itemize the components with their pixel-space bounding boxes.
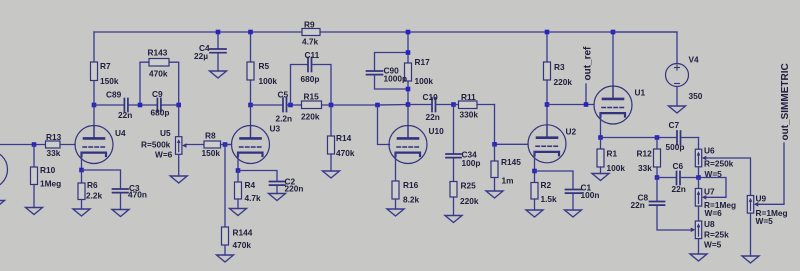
capacitor C9 xyxy=(151,89,170,118)
ground below R16 xyxy=(387,209,404,216)
svg-text:100k: 100k xyxy=(607,163,626,173)
potentiometer U7 xyxy=(695,178,736,222)
ground clipped at left edge xyxy=(0,201,5,208)
resistor R4 xyxy=(235,171,262,209)
svg-text:2.2k: 2.2k xyxy=(86,191,103,201)
capacitor C4 xyxy=(194,32,226,71)
capacitor C6 xyxy=(657,161,699,194)
svg-text:W=5: W=5 xyxy=(704,240,722,250)
junction R10 top xyxy=(32,142,37,147)
svg-text:33k: 33k xyxy=(47,148,61,158)
resistor R15 xyxy=(301,92,322,122)
svg-text:C89: C89 xyxy=(106,90,122,100)
wire U7 wiper loop xyxy=(701,178,726,198)
svg-text:V4: V4 xyxy=(689,55,700,65)
svg-text:U7: U7 xyxy=(704,187,715,197)
svg-text:C10: C10 xyxy=(423,92,439,102)
resistor R6 xyxy=(78,170,103,209)
ground below U9 xyxy=(742,256,759,263)
wire grid rail left edge xyxy=(0,144,46,146)
node out_ref xyxy=(583,46,594,105)
junction U10 plate node xyxy=(406,102,411,107)
capacitor C1 xyxy=(535,171,600,210)
svg-text:22n: 22n xyxy=(672,184,686,194)
svg-text:C6: C6 xyxy=(673,161,684,171)
svg-text:220k: 220k xyxy=(301,112,320,122)
svg-text:U1: U1 xyxy=(635,88,646,98)
potentiometer U9 xyxy=(747,194,787,257)
svg-text:22n: 22n xyxy=(118,110,132,120)
junction R1 top node xyxy=(598,135,603,140)
svg-text:R25: R25 xyxy=(461,181,477,191)
junction U2 plate node xyxy=(545,102,550,107)
junction R143 left xyxy=(138,103,143,108)
svg-text:U5: U5 xyxy=(160,128,171,138)
svg-text:R11: R11 xyxy=(461,92,476,102)
junction R15 right / R14 top xyxy=(329,103,334,108)
svg-text:680p: 680p xyxy=(301,74,320,84)
svg-text:C11: C11 xyxy=(305,50,320,60)
ground below R2 xyxy=(526,210,543,217)
capacitor C5 xyxy=(276,90,293,124)
potentiometer U6 xyxy=(695,138,733,180)
svg-text:R143: R143 xyxy=(148,48,168,58)
resistor R10 xyxy=(31,145,62,208)
svg-text:R=250k: R=250k xyxy=(704,159,734,169)
ground below R4 xyxy=(230,209,247,216)
svg-text:R15: R15 xyxy=(304,92,320,102)
resistor R13 xyxy=(46,132,76,158)
resistor R8 xyxy=(202,131,232,159)
svg-text:R17: R17 xyxy=(415,57,431,67)
junction R145 top xyxy=(492,142,497,147)
svg-text:R6: R6 xyxy=(87,180,98,190)
svg-text:1Meg: 1Meg xyxy=(40,179,61,189)
svg-text:1m: 1m xyxy=(502,176,514,186)
ground below C3 xyxy=(112,210,129,217)
wire U3 grid xyxy=(225,144,232,146)
svg-text:U9: U9 xyxy=(756,194,767,204)
junction U10 grid tap xyxy=(375,103,380,108)
wire mid rail left section xyxy=(94,104,179,106)
capacitor C11 parallel loop xyxy=(291,50,332,105)
capacitor C2 xyxy=(238,171,303,194)
triode U2 xyxy=(528,105,576,163)
svg-text:500p: 500p xyxy=(666,142,685,152)
svg-text:100n: 100n xyxy=(581,190,600,200)
junction out_ref tap xyxy=(584,102,589,107)
wire top supply rail xyxy=(94,31,677,33)
svg-text:U8: U8 xyxy=(704,219,715,229)
wire U3 cathode xyxy=(237,153,239,171)
resistor R143 parallel loop xyxy=(140,48,179,106)
resistor R2 xyxy=(531,171,557,210)
resistor R7 xyxy=(91,32,119,105)
svg-text:R12: R12 xyxy=(637,149,653,159)
capacitor C10 xyxy=(408,92,454,122)
svg-text:U2: U2 xyxy=(566,127,577,137)
svg-text:R=25k: R=25k xyxy=(704,230,729,240)
ground below R6 xyxy=(73,209,90,216)
triode U10 xyxy=(389,105,444,164)
wire R17 column xyxy=(407,32,409,105)
junction U2 cathode node xyxy=(532,169,537,174)
wire feedback rail xyxy=(601,137,699,139)
svg-text:470n: 470n xyxy=(128,190,147,200)
junction C5 right / C11 left xyxy=(288,103,293,108)
node out_SIMMETRC xyxy=(758,63,791,204)
junction R3 top rail xyxy=(545,30,550,35)
svg-text:U6: U6 xyxy=(704,146,715,156)
junction U6 bottom / U7 top xyxy=(696,175,701,180)
wire plate rail middle xyxy=(251,104,409,107)
wire R11 to U2 grid xyxy=(495,105,529,145)
svg-text:470k: 470k xyxy=(149,69,168,79)
svg-text:R8: R8 xyxy=(205,131,216,141)
ground below R25 xyxy=(445,216,462,223)
svg-text:4.7k: 4.7k xyxy=(302,37,319,47)
svg-text:W=5: W=5 xyxy=(756,216,774,226)
resistor R1 xyxy=(597,138,625,174)
ground below R14 xyxy=(323,171,340,178)
svg-text:350: 350 xyxy=(689,91,703,101)
junction U4 cathode node xyxy=(79,168,84,173)
resistor R3 xyxy=(544,32,573,105)
junction R143 right / U5 top xyxy=(176,103,181,108)
potentiometer U8 xyxy=(691,219,729,254)
svg-text:33k: 33k xyxy=(638,163,652,173)
svg-text:150k: 150k xyxy=(202,148,221,158)
capacitor C7 xyxy=(666,120,685,152)
junction R17 top rail xyxy=(406,30,411,35)
svg-text:1.5k: 1.5k xyxy=(541,194,558,204)
svg-text:220k: 220k xyxy=(554,77,573,87)
svg-text:22n: 22n xyxy=(426,112,440,122)
svg-text:R3: R3 xyxy=(554,62,565,72)
svg-text:100p: 100p xyxy=(462,158,481,168)
ground below R1 xyxy=(592,174,609,181)
potentiometer U5 xyxy=(141,105,187,176)
ground below R10 xyxy=(26,208,43,215)
svg-text:680p: 680p xyxy=(151,108,170,118)
svg-text:R144: R144 xyxy=(233,228,253,238)
svg-text:U4: U4 xyxy=(115,128,126,138)
svg-text:C5: C5 xyxy=(278,90,289,100)
capacitor C34 xyxy=(446,105,480,182)
junction U1 plate rail xyxy=(611,30,616,35)
junction C90 bottom xyxy=(406,87,411,92)
triode U3 xyxy=(232,105,281,164)
svg-text:220k: 220k xyxy=(460,196,479,206)
svg-text:R10: R10 xyxy=(40,165,56,175)
svg-text:1000p: 1000p xyxy=(384,74,408,84)
junction C10 right / C34 top xyxy=(451,102,456,107)
ground below R144 xyxy=(217,255,234,262)
ground below U8 xyxy=(690,254,707,261)
wire U1 cathode xyxy=(600,113,602,138)
capacitor C3 xyxy=(82,170,147,210)
svg-text:4.7k: 4.7k xyxy=(245,193,262,203)
svg-text:100k: 100k xyxy=(259,76,278,86)
svg-text:out_SIMMETRIC: out_SIMMETRIC xyxy=(780,63,791,140)
svg-text:W=6: W=6 xyxy=(705,208,723,218)
ground below C2 xyxy=(269,194,286,201)
ground below U5 xyxy=(170,176,187,183)
svg-text:470k: 470k xyxy=(336,148,355,158)
svg-text:R7: R7 xyxy=(100,61,111,71)
svg-text:R14: R14 xyxy=(336,133,352,143)
svg-text:C9: C9 xyxy=(152,89,163,99)
triode U4 xyxy=(75,105,126,164)
svg-text:R9: R9 xyxy=(304,20,315,30)
svg-text:R=500k: R=500k xyxy=(141,140,171,150)
junction R8 right / R144 top xyxy=(223,142,228,147)
svg-text:R5: R5 xyxy=(259,61,270,71)
resistor R145 xyxy=(491,144,521,191)
svg-text:out_ref: out_ref xyxy=(583,46,594,81)
svg-text:R145: R145 xyxy=(501,157,521,167)
voltage source V4 xyxy=(613,32,703,106)
resistor R25 xyxy=(450,181,479,216)
svg-text:8.2k: 8.2k xyxy=(403,195,420,205)
wire U10 cathode xyxy=(395,153,397,182)
node plate U4 junction xyxy=(92,103,97,108)
junction R12 top xyxy=(655,135,660,140)
svg-text:330k: 330k xyxy=(460,110,479,120)
resistor R11 xyxy=(454,92,495,120)
svg-text:150k: 150k xyxy=(100,76,119,86)
ground below C4 xyxy=(210,71,227,78)
svg-text:22µ: 22µ xyxy=(194,51,208,61)
capacitor C90 parallel loop xyxy=(367,53,409,90)
svg-text:R4: R4 xyxy=(245,180,256,190)
wire U6 wiper to U9 xyxy=(706,158,751,196)
resistor R17 xyxy=(405,57,434,86)
resistor R12 xyxy=(637,138,661,178)
ground below R145 xyxy=(486,191,503,198)
resistor R9 xyxy=(302,20,320,47)
svg-text:C7: C7 xyxy=(669,120,680,130)
wire U10 grid xyxy=(378,105,390,145)
svg-text:470k: 470k xyxy=(233,240,252,250)
junction R12 bottom / C6 left / C8 top xyxy=(655,175,660,180)
junction C4 top rail xyxy=(216,30,221,35)
svg-text:2.2n: 2.2n xyxy=(276,114,293,124)
resistor R144 xyxy=(222,145,253,256)
svg-text:R13: R13 xyxy=(46,132,62,142)
wire U2 plate to U1 grid xyxy=(547,104,594,106)
svg-text:R16: R16 xyxy=(403,180,419,190)
junction C90 top xyxy=(406,50,411,55)
ground below C1 xyxy=(565,210,582,217)
svg-text:100k: 100k xyxy=(415,76,434,86)
svg-text:22n: 22n xyxy=(631,200,645,210)
capacitor C8 xyxy=(631,178,691,231)
resistor R14 xyxy=(328,105,355,171)
junction U3 cathode node xyxy=(236,168,241,173)
resistor R16 xyxy=(392,180,420,209)
svg-text:U3: U3 xyxy=(270,124,281,134)
wire U4 cathode xyxy=(81,153,83,171)
resistor R5 xyxy=(247,32,277,105)
junction R5 bottom / U3 plate xyxy=(248,103,253,108)
tube clipped at left edge xyxy=(0,151,8,189)
wire U2 cathode xyxy=(534,152,536,172)
svg-text:R2: R2 xyxy=(541,180,552,190)
junction R5 top rail xyxy=(248,30,253,35)
svg-text:220n: 220n xyxy=(285,184,304,194)
svg-text:R1: R1 xyxy=(607,149,618,159)
svg-text:W=6: W=6 xyxy=(155,150,173,160)
capacitor C89 xyxy=(106,90,132,121)
svg-text:U10: U10 xyxy=(429,126,445,136)
triode U1 xyxy=(594,32,645,124)
wire U5 wiper to R8 xyxy=(187,144,204,146)
ground below V4 xyxy=(669,106,686,113)
